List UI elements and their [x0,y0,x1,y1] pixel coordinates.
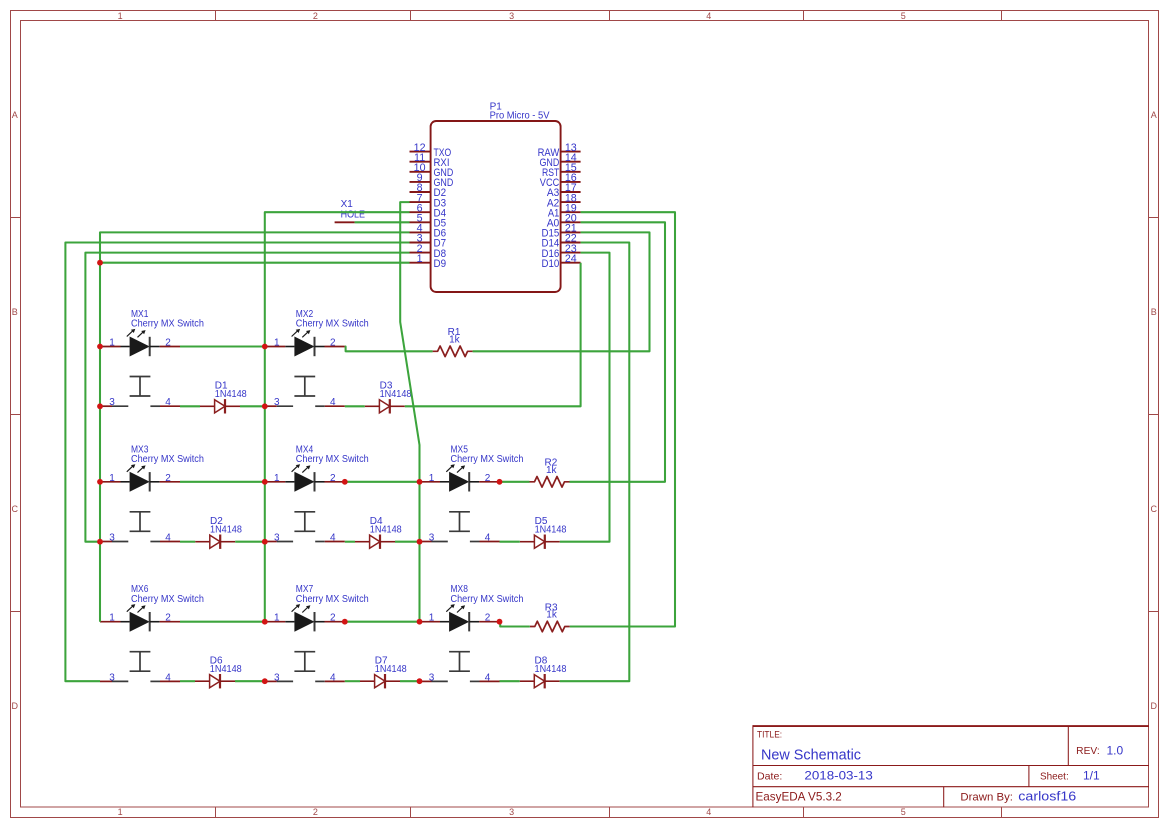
junction [97,344,103,350]
wire MX7.2 to MX8.1 [345,621,420,623]
wire P1.D9 row [100,262,410,264]
svg-text:Cherry MX Switch: Cherry MX Switch [131,453,204,465]
junction [262,403,268,409]
wire MX8.2 to R3 [500,622,530,627]
wire D3 to P1.D10 [405,263,581,407]
wire MX6.2 to MX7.1 [180,621,265,623]
junction [417,479,423,485]
svg-text:1: 1 [109,613,115,624]
svg-text:B: B [1151,307,1157,317]
svg-text:C: C [1151,504,1158,514]
svg-text:1k: 1k [546,610,558,621]
switch MX4 (Cherry MX Switch) [265,444,369,543]
wire MX1.4 to D1 [180,405,200,407]
svg-text:carlosf16: carlosf16 [1018,789,1076,804]
wire X1 hole to P1.D5 [355,221,410,223]
switch MX5 (Cherry MX Switch) [420,444,524,543]
junction [342,479,348,485]
P1 pin 10 (GND) [410,162,454,179]
svg-text:Drawn By:: Drawn By: [960,791,1013,803]
svg-text:1: 1 [109,338,115,349]
svg-text:Pro Micro - 5V: Pro Micro - 5V [490,110,550,121]
svg-text:Cherry MX Switch: Cherry MX Switch [451,453,524,465]
P1 pin 17 (A3) [547,182,581,199]
svg-text:X1: X1 [341,199,354,210]
junction [417,539,423,545]
diode D1 1N4148 [200,381,247,414]
P1 pin 15 (RST) [542,162,581,179]
title block [753,725,1149,807]
P1 pin 9 (GND) [410,172,454,189]
wire MX2.4 to D3 [345,405,365,407]
P1 pin 16 (VCC) [540,172,581,189]
P1 pin 3 (D7) [410,233,447,250]
P1 pin 13 (RAW) [538,142,581,159]
mounting hole X1 [335,199,366,222]
svg-text:1: 1 [274,613,280,624]
P1 pin 24 (D10) [542,253,581,270]
svg-text:1: 1 [429,613,435,624]
svg-text:REV:: REV: [1076,746,1100,757]
wire D1 to MX2.3 [240,405,265,407]
P1 pin 19 (A1) [548,202,581,219]
wire D6 to MX7.3 [235,680,265,682]
wire MX4.2 to MX5.1 [345,481,420,483]
switch MX2 (Cherry MX Switch) [265,309,369,408]
junction [262,479,268,485]
svg-text:2: 2 [330,473,336,484]
junction [417,678,423,684]
P1 pin 23 (D16) [542,243,581,260]
wire D2 to MX4.3 [235,541,265,543]
wire D5 to P1.D16 [560,253,610,542]
switch MX7 (Cherry MX Switch) [265,584,369,683]
svg-text:Cherry MX Switch: Cherry MX Switch [131,318,204,330]
connector U/P1 Pro Micro - 5V [431,102,561,293]
diode D5 1N4148 [520,516,567,549]
svg-text:2: 2 [485,473,491,484]
svg-text:2: 2 [165,338,171,349]
svg-text:1k: 1k [449,335,461,346]
wire R2 to P1.A0 [570,222,666,482]
wire P1.D7 to row 3 contacts [65,243,409,682]
svg-text:1: 1 [429,473,435,484]
svg-text:Cherry MX Switch: Cherry MX Switch [451,593,524,605]
svg-text:1N4148: 1N4148 [215,389,247,400]
svg-text:1: 1 [109,473,115,484]
svg-text:1N4148: 1N4148 [210,664,242,675]
svg-text:B: B [12,307,18,317]
svg-text:1N4148: 1N4148 [380,389,412,400]
svg-text:Cherry MX Switch: Cherry MX Switch [296,453,369,465]
svg-text:Cherry MX Switch: Cherry MX Switch [296,593,369,605]
svg-text:2: 2 [330,338,336,349]
svg-text:1.0: 1.0 [1107,744,1124,758]
svg-text:2: 2 [165,613,171,624]
svg-text:C: C [11,504,18,514]
switch MX6 (Cherry MX Switch) [100,584,204,683]
wire MX3.2 to MX4.1 [180,481,265,483]
svg-text:A: A [12,110,18,120]
P1 pin 11 (RXI) [410,152,450,169]
wire MX4.4 to D4 [345,541,355,543]
wire R1 to P1.D15 [473,232,650,351]
P1 pin 22 (D14) [542,233,581,250]
wire D7 to MX8.3 [400,680,420,682]
wire MX1.2 to MX2.1 [180,345,265,347]
svg-text:Date:: Date: [757,771,782,783]
switch MX8 (Cherry MX Switch) [420,584,524,683]
svg-text:1: 1 [274,338,280,349]
diode D2 1N4148 [195,516,242,549]
wire P1.D8 to row 2 contacts [85,253,409,542]
junction [342,619,348,625]
svg-text:1: 1 [417,253,423,265]
svg-text:2: 2 [313,807,318,817]
diode D8 1N4148 [520,655,567,688]
junction [97,539,103,545]
P1 pin 12 (TXO) [410,142,452,159]
svg-text:1N4148: 1N4148 [370,524,402,535]
wire R3 to P1.A1 [570,212,675,626]
svg-text:EasyEDA V5.3.2: EasyEDA V5.3.2 [756,790,843,804]
svg-text:Cherry MX Switch: Cherry MX Switch [296,318,369,330]
svg-text:1k: 1k [546,465,558,476]
svg-text:1N4148: 1N4148 [535,664,567,675]
svg-text:Sheet:: Sheet: [1040,771,1069,783]
svg-text:1N4148: 1N4148 [535,524,567,535]
svg-text:1/1: 1/1 [1083,769,1100,783]
junction [97,260,103,266]
wire MX5.4 to D5 [500,541,520,543]
svg-text:D9: D9 [434,258,447,270]
wire MX6.4 to D6 [180,680,195,682]
junction [417,619,423,625]
junction [497,479,503,485]
svg-text:2018-03-13: 2018-03-13 [804,769,873,783]
diode D7 1N4148 [360,655,407,688]
switch MX3 (Cherry MX Switch) [100,444,204,543]
svg-text:3: 3 [509,11,514,21]
junction [262,344,268,350]
svg-text:2: 2 [313,11,318,21]
svg-text:HOLE: HOLE [341,209,366,220]
P1 pin 5 (D5) [410,213,447,230]
svg-text:3: 3 [509,807,514,817]
wire P1.D6 to column 1 [100,232,410,621]
diode D4 1N4148 [355,516,402,549]
wire MX3.4 to D2 [180,541,195,543]
svg-text:5: 5 [901,11,906,21]
wire MX2.2 to R1 [345,347,433,352]
P1 pin 14 (GND) [540,152,581,169]
diode D3 1N4148 [365,381,412,414]
junction [262,678,268,684]
svg-text:2: 2 [485,613,491,624]
junction [262,539,268,545]
P1 pin 7 (D3) [410,192,447,209]
svg-text:24: 24 [565,253,577,265]
wire MX5.2 to R2 [500,481,530,483]
svg-text:5: 5 [901,807,906,817]
svg-text:1: 1 [118,807,123,817]
junction [97,403,103,409]
svg-text:2: 2 [330,613,336,624]
svg-text:2: 2 [165,473,171,484]
svg-text:TITLE:: TITLE: [757,730,782,740]
wire P1.D4 to column 2 [265,212,410,622]
wire D8 to P1.D14 [560,243,630,682]
resistor R2 1k [530,458,570,488]
svg-text:A: A [1151,110,1157,120]
wire MX8.4 to D8 [500,680,520,682]
P1 pin 20 (A0) [547,213,581,230]
svg-text:1N4148: 1N4148 [375,664,407,675]
svg-text:New Schematic: New Schematic [761,747,861,764]
P1 pin 2 (D8) [410,243,447,260]
svg-text:D: D [1151,701,1158,711]
svg-text:Cherry MX Switch: Cherry MX Switch [131,593,204,605]
P1 pin 1 (D9) [410,253,447,270]
wire P1.D3 to column 3 (diagonal) [400,202,419,622]
svg-text:4: 4 [706,807,711,817]
switch MX1 (Cherry MX Switch) [100,309,204,408]
junction [262,619,268,625]
P1 pin 8 (D2) [410,182,447,199]
wire D4 to MX5.3 [395,541,420,543]
svg-text:4: 4 [706,11,711,21]
resistor R1 1k [433,327,473,357]
junction [97,479,103,485]
svg-text:D: D [11,701,18,711]
P1 pin 4 (D6) [410,223,447,240]
P1 pin 21 (D15) [542,223,581,240]
resistor R3 1k [530,602,570,632]
svg-text:1N4148: 1N4148 [210,524,242,535]
P1 pin 18 (A2) [547,192,581,209]
wire MX7.4 to D7 [345,680,360,682]
svg-text:1: 1 [118,11,123,21]
junction [497,619,503,625]
diode D6 1N4148 [195,655,242,688]
svg-text:D10: D10 [542,258,560,270]
svg-text:1: 1 [274,473,280,484]
P1 pin 6 (D4) [410,202,447,219]
